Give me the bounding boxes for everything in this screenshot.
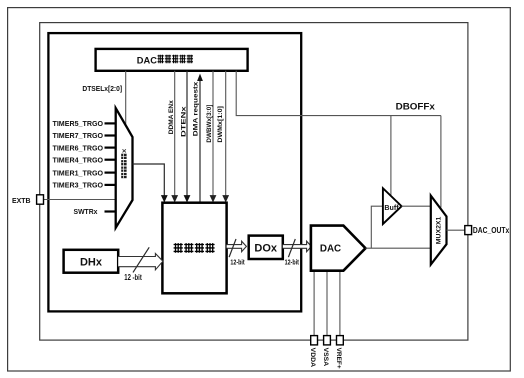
control logic box: [162, 203, 226, 294]
DAC digital block boundary (thick rectangle): [48, 33, 301, 311]
pad VSSA on boundary: [324, 336, 331, 345]
slash bus mark: [229, 239, 236, 257]
svg-text:VREF+: VREF+: [335, 348, 342, 369]
stub SWTRx: [105, 210, 117, 212]
stub TIMER7_TRGO: [105, 134, 117, 136]
stub TIMER5_TRGO: [105, 122, 117, 124]
svg-text:12-bit: 12-bit: [230, 257, 245, 266]
svg-text:Buff: Buff: [384, 205, 399, 212]
op-amp Buff: [383, 188, 402, 224]
stub TIMER3_TRGO: [105, 184, 117, 186]
stub TIMER4_TRGO: [105, 159, 117, 161]
svg-text:TIMER6_TRGO: TIMER6_TRGO: [53, 143, 104, 152]
svg-text:DBOFFx: DBOFFx: [396, 101, 435, 111]
pad EXTB on boundary: [37, 195, 44, 204]
svg-text:DMA requestx: DMA requestx: [193, 81, 200, 136]
wire DWMx[1:0] vertical: [225, 71, 227, 197]
svg-text:TIMER4_TRGO: TIMER4_TRGO: [53, 155, 104, 164]
wire DAC output branch up to Buff: [371, 206, 383, 248]
DAC peripheral boundary (inner thin rectangle): [40, 23, 468, 341]
wire DBOFFx branch to Buff: [390, 116, 392, 195]
register box U1: DAC control registers: [96, 49, 248, 71]
wire DTENx vertical: [186, 71, 188, 197]
bus arrow DHx to control logic (hollow): [118, 254, 163, 270]
wire VDDA from DAC: [313, 271, 315, 336]
svg-text:TIMER3_TRGO: TIMER3_TRGO: [53, 181, 104, 190]
slash 12-bit bus mark: [133, 247, 149, 272]
trigger mux (trapezoid) 触发选择x: [116, 108, 133, 228]
DAC converter (pentagon): [311, 226, 366, 271]
arrowhead DMA requestx up: [197, 74, 203, 81]
wire VSSA from DAC: [326, 271, 328, 336]
wire DTSELx from register to trigger mux: [125, 71, 127, 124]
wire EXTI trigger from pad to mux: [43, 199, 116, 201]
svg-text:12-bit: 12-bit: [285, 257, 300, 266]
wire trigger mux output to control logic: [133, 164, 165, 197]
svg-text:TIMER1_TRGO: TIMER1_TRGO: [53, 168, 104, 177]
svg-text:DWBWx[3:0]: DWBWx[3:0]: [206, 105, 213, 143]
svg-text:VDDA: VDDA: [309, 348, 316, 368]
wire DBOFFx route from register to buff and mux: [236, 71, 441, 116]
mux MUX2X1 (trapezoid): [431, 196, 447, 265]
arrowhead DWMx: [222, 195, 229, 202]
arrowhead DDMAENx: [171, 195, 178, 202]
svg-text:DWMx[1:0]: DWMx[1:0]: [217, 106, 224, 143]
svg-text:TIMER5_TRGO: TIMER5_TRGO: [53, 119, 104, 128]
arrowhead DWBWx: [210, 195, 217, 202]
wire MUX output to DAC_OUTx pad: [447, 229, 465, 231]
svg-text:DAC: DAC: [137, 55, 157, 65]
wire DBOFFx branch to MUX2X1: [440, 116, 442, 208]
svg-text:DAC: DAC: [320, 244, 341, 255]
svg-text:12 -bit: 12 -bit: [124, 273, 142, 282]
DHx box: [64, 250, 119, 273]
bus arrow DOx to DAC (hollow): [283, 241, 312, 252]
pad VDDA on boundary: [311, 336, 318, 345]
stub TIMER1_TRGO: [105, 172, 117, 174]
svg-text:DTSELx[2:0]: DTSELx[2:0]: [82, 84, 122, 93]
wire DAC output to MUX lower input: [366, 247, 431, 249]
svg-text:DOx: DOx: [254, 242, 278, 254]
bus arrow control logic to DOx (hollow): [227, 241, 247, 252]
svg-text:DDMA ENx: DDMA ENx: [168, 100, 175, 134]
label 触发选择x (CJK glyph blocks, rotated): [121, 154, 126, 179]
wire DWBWx[3:0] vertical: [212, 71, 214, 197]
svg-text:DAC_OUTx: DAC_OUTx: [473, 226, 510, 235]
svg-text:VSSA: VSSA: [322, 348, 329, 367]
slash bus mark: [288, 239, 295, 257]
svg-text:EXTB: EXTB: [12, 196, 31, 205]
arrowhead DTENx: [184, 195, 191, 202]
pad DAC_OUTx on boundary: [465, 226, 472, 235]
svg-text:SWTRx: SWTRx: [74, 207, 99, 216]
wire DDMAENx vertical: [174, 71, 176, 197]
svg-text:DHx: DHx: [80, 257, 103, 269]
svg-text:DTENx: DTENx: [180, 106, 187, 137]
wire Buff output to MUX: [402, 205, 431, 207]
pad VREF+ on boundary: [337, 336, 344, 345]
wire VREF+ from DAC: [339, 271, 341, 336]
label 控制逻辑 (CJK glyph strokes): [174, 243, 215, 253]
svg-text:MUX2X1: MUX2X1: [436, 216, 443, 244]
DOx box: [249, 236, 283, 259]
arrowhead trigger into control logic: [161, 195, 168, 202]
label 控制寄存器 (CJK glyph strokes): [158, 55, 194, 64]
stub TIMER6_TRGO: [105, 147, 117, 149]
wire DMA requestx vertical (points up): [199, 81, 201, 203]
svg-text:TIMER7_TRGO: TIMER7_TRGO: [53, 131, 104, 140]
